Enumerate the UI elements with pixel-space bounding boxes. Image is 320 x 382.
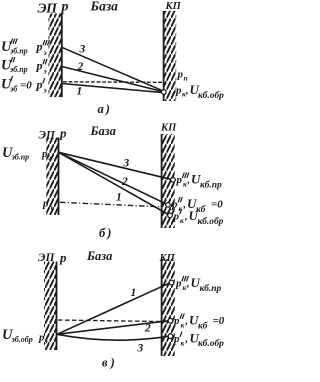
node circle p3k (panel v) (169, 280, 174, 285)
svg-text:кб.обр: кб.обр (198, 216, 224, 227)
line 2 (panel v) (57, 321, 169, 335)
svg-text:а): а) (98, 102, 112, 116)
collector junction edge (panel a) (163, 11, 165, 101)
svg-text:к: к (183, 180, 187, 189)
collector junction bar hatch (panel b) (162, 134, 175, 228)
node circle p3k (panel b) (171, 178, 176, 183)
svg-text:2: 2 (77, 61, 84, 73)
emitter junction bar hatch (panel a) (49, 14, 62, 98)
svg-text:р: р (36, 59, 43, 73)
svg-text:кб: кб (198, 321, 209, 332)
svg-text:р: р (177, 69, 184, 81)
collector junction bar hatch (panel v) (162, 259, 175, 356)
svg-text:База: База (90, 0, 119, 14)
dashed pn level (panel v) (58, 320, 166, 322)
svg-text:р: р (41, 148, 48, 160)
emitter junction edge (panel a) (61, 14, 63, 98)
svg-text:п: п (184, 74, 188, 83)
svg-text:р: р (173, 333, 180, 345)
svg-text:эб.обр: эб.обр (11, 335, 33, 344)
svg-text:э: э (43, 48, 47, 57)
svg-text:б): б) (99, 226, 113, 240)
svg-text:р: р (59, 250, 67, 265)
svg-text:=0: =0 (213, 315, 225, 327)
svg-text:к: к (181, 321, 185, 330)
svg-text:к: к (181, 339, 185, 348)
svg-text:База: База (90, 124, 116, 138)
svg-text:кб.обр: кб.обр (198, 338, 224, 349)
line 1 (panel a) (62, 84, 163, 93)
dash-dot pn level (panel b) (60, 202, 161, 207)
svg-text:,: , (185, 86, 189, 97)
svg-text:п: п (49, 203, 53, 212)
svg-text:3: 3 (79, 44, 86, 56)
svg-text:р: р (36, 78, 43, 92)
svg-text:=0: =0 (211, 199, 223, 211)
emitter junction bar hatch (panel b) (46, 138, 58, 216)
line 1 (panel b) (59, 152, 171, 215)
svg-text:р: р (173, 315, 180, 327)
svg-text:=0: =0 (20, 80, 32, 92)
node circle p1k (panel v) (168, 334, 173, 339)
svg-text:к: к (180, 216, 184, 225)
svg-text:э: э (47, 153, 51, 162)
svg-text:,: , (183, 200, 187, 211)
emitter junction edge (panel b) (58, 138, 60, 216)
svg-text:р: р (59, 126, 67, 141)
svg-text:в): в) (102, 356, 118, 370)
svg-text:1: 1 (116, 192, 122, 204)
svg-text:к: к (183, 283, 187, 292)
node circle p1k (panel b) (168, 213, 173, 218)
node circle p2k (panel v) (168, 318, 173, 323)
svg-text:р: р (175, 85, 182, 97)
svg-text:эб: эб (9, 85, 18, 94)
node circle pk (panel a) (162, 90, 167, 95)
collector junction bar hatch (panel a) (164, 11, 177, 101)
svg-text:э: э (44, 337, 48, 346)
svg-text:База: База (86, 249, 112, 263)
svg-text:кб.пр: кб.пр (200, 180, 222, 191)
svg-text:э: э (43, 86, 47, 95)
svg-text:2: 2 (121, 176, 128, 188)
svg-text:эб.пр: эб.пр (11, 153, 30, 162)
svg-text:КП: КП (165, 1, 182, 12)
svg-text:1: 1 (77, 86, 83, 98)
svg-text:р: р (171, 199, 178, 211)
svg-text:эб.пр: эб.пр (9, 65, 28, 74)
line 3 (panel b) (59, 152, 174, 180)
svg-text:р: р (36, 40, 43, 54)
svg-text:2: 2 (144, 323, 151, 335)
svg-text:р: р (61, 0, 69, 15)
svg-text:,: , (184, 212, 188, 223)
line 3 (panel a) (62, 47, 163, 91)
svg-text:,: , (185, 334, 189, 345)
dashed pn level (panel a) (63, 81, 163, 84)
svg-text:,: , (185, 316, 189, 327)
svg-text:1: 1 (131, 287, 137, 299)
svg-text:,: , (187, 175, 191, 186)
collector junction edge (panel v) (161, 259, 163, 356)
svg-text:р: р (173, 211, 180, 223)
line 3 (panel v) (57, 334, 169, 340)
emitter junction bar hatch (panel v) (44, 262, 57, 351)
svg-text:р: р (176, 174, 183, 186)
collector junction edge (panel b) (161, 134, 163, 228)
svg-text:э: э (43, 67, 47, 76)
svg-text:эб.пр: эб.пр (9, 47, 28, 56)
svg-text:р: р (175, 278, 182, 290)
svg-text:кб.обр: кб.обр (198, 90, 224, 101)
svg-text:3: 3 (123, 158, 130, 170)
svg-text:кб.пр: кб.пр (200, 283, 222, 294)
emitter junction edge (panel v) (56, 262, 58, 351)
line 2 (panel a) (62, 67, 163, 92)
node circle p2k (panel b) (166, 203, 171, 208)
svg-text:КП: КП (160, 123, 177, 134)
svg-text:,: , (186, 279, 190, 290)
line 1 (panel v) (57, 283, 170, 335)
line 2 (panel b) (59, 152, 169, 205)
svg-text:3: 3 (137, 343, 144, 355)
